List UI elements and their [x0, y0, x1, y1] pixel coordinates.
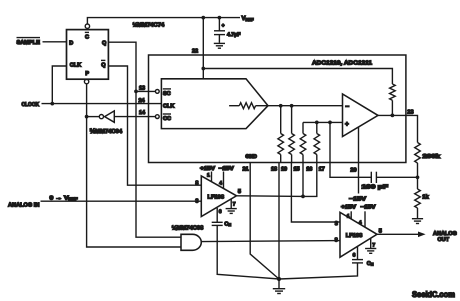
wire A1 output pin 5 [237, 195, 304, 198]
svg-text:CLK: CLK [163, 104, 174, 110]
svg-text:16: 16 [306, 166, 312, 172]
label pin 16 [306, 166, 312, 172]
op-amp comparator U4 [343, 94, 379, 137]
svg-text:SC: SC [163, 91, 171, 97]
label -15V at pin 20 [349, 197, 366, 203]
svg-text:C: C [85, 34, 89, 40]
node CLOCK label [22, 102, 40, 108]
svg-text:¼MM74C08: ¼MM74C08 [172, 225, 204, 232]
svg-text:100 pF: 100 pF [362, 184, 389, 191]
label pin 23 [407, 110, 413, 116]
svg-text:200k: 200k [423, 153, 442, 160]
resistor ladder R2 [289, 106, 295, 163]
wire A1 pin4 stub [223, 172, 225, 189]
svg-text:ANALOG: ANALOG [433, 231, 457, 237]
svg-text:7: 7 [372, 243, 375, 249]
label A1 LF198 [208, 194, 225, 200]
wire 14 CC-bar to inverter input [114, 116, 155, 118]
svg-text:D: D [69, 41, 73, 47]
arrow ANALOG OUT [418, 232, 426, 238]
resistor ladder R1 [278, 106, 284, 163]
svg-text:4.7µF: 4.7µF [227, 32, 240, 38]
label A2 pin 4 [359, 220, 362, 226]
svg-text:7: 7 [233, 202, 236, 208]
flip-flop U1 MM74C74 box [67, 30, 109, 80]
label A2 LF198 [346, 233, 363, 239]
label CH1 [224, 221, 231, 227]
svg-text:ANALOG IN: ANALOG IN [8, 202, 39, 208]
wire pin 19 to A2 pin 3 [291, 163, 340, 223]
wire U1 Qbar down to S/H1 pin8 [108, 66, 201, 185]
label comparator plus [345, 121, 349, 128]
label pin 24 [139, 98, 146, 104]
svg-text:4: 4 [219, 180, 222, 186]
wire CLOCK to ADC CLK pin [42, 103, 162, 105]
node SAMPLE label [17, 38, 41, 47]
svg-text:24: 24 [139, 98, 146, 104]
label A1 +15V [200, 166, 215, 172]
svg-text:GND: GND [245, 154, 257, 160]
label pin 22 [192, 49, 198, 55]
wire pin 22 VREF into DAC [202, 18, 204, 79]
resistor ladder R4 [314, 122, 320, 162]
label pin 18 [271, 166, 277, 172]
svg-text:+15V: +15V [341, 204, 356, 210]
wire comparator V- pin 20 to -15V [358, 127, 360, 194]
svg-text:6: 6 [353, 253, 356, 259]
label pin 13 [139, 85, 145, 91]
wire A1 pin1 stub [211, 172, 213, 182]
wire A2 pin4 stub [364, 211, 366, 227]
node junction rail-pin22 [201, 16, 205, 20]
IC ADC1210 outline box [149, 55, 406, 163]
svg-text:Q: Q [102, 40, 107, 46]
label pin 19 [281, 166, 287, 172]
wire pin 18 to star ground [278, 163, 280, 280]
node junction P wire - inverter out [85, 115, 89, 119]
pin U1 D label [69, 41, 73, 47]
svg-text:8: 8 [195, 180, 198, 186]
node junction ladder R2 top [290, 104, 294, 108]
label pin 8 of A2 [335, 237, 338, 243]
label pin 8 of A1 [195, 180, 198, 186]
svg-text:21: 21 [243, 166, 249, 172]
svg-text:14: 14 [139, 110, 146, 116]
resistor 1k [415, 177, 421, 218]
resistor pull-up at comparator output [390, 84, 396, 115]
wire pin 17 vertical [329, 122, 331, 162]
label A1 pin 4 [219, 180, 222, 186]
label U3 1/4MM74C08 [172, 225, 204, 232]
svg-text:SAMPLE: SAMPLE [17, 40, 41, 46]
wire inverter output [87, 116, 100, 118]
label A2 -15V [361, 204, 376, 210]
svg-text:17: 17 [319, 166, 325, 172]
pin U1 preset bubble [84, 79, 88, 83]
svg-text:8: 8 [335, 237, 338, 243]
label U1 1/2MM74C74 [133, 22, 165, 29]
op-amp A2 LF198 sample-hold [340, 212, 377, 257]
capacitor C1 4.7uF [214, 18, 225, 43]
node junction CLOCK branch [50, 102, 54, 106]
label A2 pin 7 [372, 243, 375, 249]
wire U3 output to A2 pin 8 [201, 241, 340, 242]
wire DAC output to comparator minus [268, 105, 343, 107]
svg-text:18: 18 [271, 166, 277, 172]
value label 200k [423, 153, 442, 160]
svg-text:+: + [345, 121, 349, 128]
wire comparator plus input line [303, 121, 343, 123]
wire A2 pin1 stub [350, 211, 352, 219]
label pin 3 of A1 [195, 198, 198, 204]
label A1 pin 5 [238, 189, 241, 195]
label U2 1/6MM74C04 [90, 128, 123, 135]
pin U1 Q label [102, 40, 107, 46]
wire comparator output pin 23 [378, 115, 418, 142]
wire A2 pin 6 stub [357, 246, 359, 259]
pin DAC SC-bar bubble [155, 90, 159, 94]
value label 1k [422, 193, 429, 200]
wire A1 pin 7 stub [230, 199, 232, 209]
node junction ladder R1 top [279, 104, 283, 108]
svg-text:0 → VREF: 0 → VREF [50, 195, 79, 201]
node junction pin17 branch [328, 121, 332, 125]
svg-text:3: 3 [195, 198, 198, 204]
svg-text:P: P [85, 71, 89, 77]
svg-text:6: 6 [219, 209, 222, 215]
svg-text:1k: 1k [422, 193, 429, 200]
wire pin 17 to 100pF [330, 163, 371, 178]
svg-text:3: 3 [335, 221, 338, 227]
ground G4 at A2 pin 7 [365, 249, 376, 254]
watermark SeekIC.com [412, 290, 455, 299]
svg-text:−: − [345, 104, 349, 111]
pin DAC CC-bar bubble [155, 115, 159, 119]
ground G1 below C1 [214, 43, 225, 48]
wire CH2 to star ground [279, 263, 358, 279]
wire A2 output pin 5 [377, 233, 418, 235]
node ANALOG OUT label [433, 231, 457, 243]
wire SAMPLE to D [43, 41, 67, 43]
node junction Q - SC wire [134, 90, 138, 94]
svg-text:1: 1 [207, 172, 210, 178]
svg-text:CLK: CLK [70, 62, 81, 68]
node junction pin22 - pull-up rail [201, 67, 205, 71]
DAC pentagon block [161, 79, 268, 129]
node star ground junction [277, 277, 281, 281]
node junction 200k-1k-100pF [416, 175, 420, 179]
node junction rail-C1 [218, 16, 222, 20]
ground G5 below 1k [412, 219, 423, 224]
wire A2 pin 7 stub [370, 238, 372, 248]
pin U1 clear bubble [85, 24, 89, 28]
node ANALOG IN label [8, 202, 39, 208]
label A1 pin 1 [207, 172, 210, 178]
resistor inside DAC [229, 103, 268, 109]
svg-text:+15V: +15V [200, 166, 215, 172]
svg-text:13: 13 [139, 85, 145, 91]
wire U1 P vertical to AND gate [87, 84, 181, 247]
node junction S/H1 output pins 15-16 [301, 195, 305, 199]
svg-text:½MM74C74: ½MM74C74 [133, 22, 165, 29]
label A1 pin 7 [233, 202, 236, 208]
label 0 to VREF [50, 195, 79, 201]
svg-text:CC: CC [163, 116, 171, 122]
resistor 200k [415, 143, 421, 178]
label comparator minus [345, 104, 349, 111]
wire internal VREF rail [203, 69, 392, 85]
svg-text:20: 20 [350, 167, 356, 173]
svg-text:SeekIC.com: SeekIC.com [412, 290, 455, 299]
wire A1 pin 6 stub [216, 208, 218, 223]
value label 100 pF [362, 184, 389, 191]
ground G2 at A1 pin 7 [226, 209, 237, 214]
svg-text:LF198: LF198 [346, 233, 363, 239]
wire CLOCK branch up to U1 CLK [52, 66, 66, 104]
node VREF label [242, 15, 255, 22]
svg-text:CH: CH [224, 221, 231, 227]
label A1 pin 6 [219, 209, 222, 215]
svg-text:⅙MM74C04: ⅙MM74C04 [90, 128, 123, 135]
label ADC1210, ADC1211 [312, 60, 373, 67]
label A2 pin 1 [347, 214, 350, 220]
svg-text:−15V: −15V [349, 197, 366, 203]
pin DAC CLK label [163, 104, 174, 110]
svg-text:OUT: OUT [438, 237, 450, 243]
svg-text:1: 1 [347, 214, 350, 220]
op-amp A1 LF198 sample-hold [201, 176, 236, 217]
label A1 -15V [219, 166, 234, 172]
svg-text:5: 5 [238, 189, 241, 195]
wire U1 Q down to AND gate [108, 42, 181, 237]
ground G3 star ground [273, 289, 285, 294]
label GND [245, 154, 257, 160]
label pin 15 [294, 166, 300, 172]
svg-text:15: 15 [294, 166, 300, 172]
svg-text:4: 4 [359, 220, 362, 226]
node junction R4 top [315, 121, 319, 125]
svg-text:5: 5 [379, 228, 382, 234]
wire pin 16 down and left [303, 163, 317, 197]
svg-text:CH: CH [367, 261, 374, 267]
AND gate U3 MM74C08 [181, 234, 201, 250]
wire star ground stub [278, 279, 280, 289]
inverter U2 MM74C04 (points left) [99, 111, 114, 122]
svg-text:−15V: −15V [361, 204, 376, 210]
svg-text:−15V: −15V [219, 166, 234, 172]
pin U1 Qbar label [101, 60, 106, 68]
svg-text:ADC1210, ADC1211: ADC1210, ADC1211 [312, 60, 373, 67]
label A2 pin 6 [353, 253, 356, 259]
label pin 17 [319, 166, 325, 172]
wire 13 Q to SC-bar [136, 90, 155, 92]
capacitor CH2 [352, 260, 363, 263]
pin U1 P label [85, 71, 89, 77]
svg-text:+: + [222, 23, 225, 29]
svg-text:CLOCK: CLOCK [22, 102, 40, 108]
wire pin 15 down [302, 163, 304, 197]
svg-text:Q: Q [101, 62, 106, 68]
label CH2 [367, 261, 374, 267]
node junction pull-up - output [391, 114, 395, 118]
resistor ladder R3 [300, 122, 306, 162]
label pin 3 of A2 [335, 221, 338, 227]
capacitor CH1 [212, 222, 223, 225]
pin U1 C-bar label [85, 32, 89, 40]
wire pin 21 to star ground [250, 163, 279, 280]
label pin 21 [243, 166, 249, 172]
wire CH1 to star ground [217, 225, 279, 279]
label A2 pin 5 [379, 228, 382, 234]
svg-text:19: 19 [281, 166, 287, 172]
label pin 20 [350, 167, 356, 173]
pin DAC SC-bar label [163, 89, 171, 97]
svg-text:LF198: LF198 [208, 194, 225, 200]
value label 4.7uF [227, 32, 240, 38]
pin DAC CC-bar label [163, 114, 171, 122]
svg-text:VREF: VREF [242, 15, 255, 22]
pin U1 CLK label [70, 62, 81, 68]
wire VREF top rail [87, 18, 240, 24]
label A2 +15V [341, 204, 356, 210]
wire ANALOG IN to A1 pin3 [41, 200, 202, 202]
svg-text:22: 22 [192, 49, 198, 55]
svg-text:23: 23 [407, 110, 413, 116]
capacitor 100pF [371, 172, 417, 183]
label pin 14 [139, 110, 146, 116]
